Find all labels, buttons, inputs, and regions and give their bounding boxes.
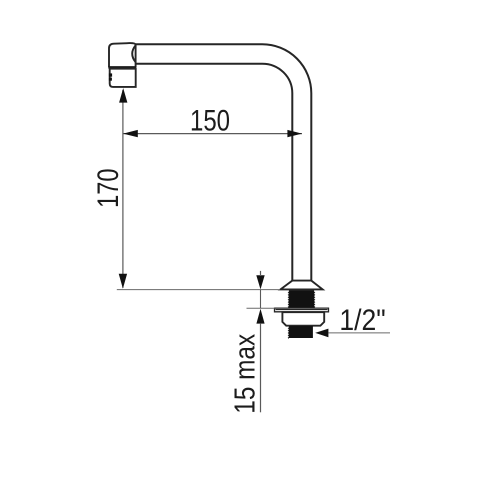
spout tube outer edge (horizontal run, corner bend, vertical drop)	[136, 44, 312, 280]
arrow left (150)	[123, 130, 138, 137]
base flare cone	[281, 281, 323, 290]
extension line at washer top	[247, 307, 275, 309]
svg-text:1/2": 1/2"	[339, 304, 385, 337]
arrow right (150)	[287, 130, 302, 137]
15 max gap line	[260, 290, 262, 309]
dimension line 150	[123, 133, 302, 135]
head/aerator divider line	[108, 66, 136, 69]
spout head body	[109, 43, 136, 67]
dimension label 170 (rotated)	[92, 169, 125, 208]
leader arrow for 1/2" (points at lower shank)	[315, 329, 328, 338]
backnut body	[282, 312, 324, 326]
extension line at mounting face	[117, 289, 280, 291]
arrow up (15 max, at washer top)	[256, 309, 264, 324]
spout head neck curve (tube junction)	[132, 45, 135, 62]
svg-text:150: 150	[190, 103, 230, 137]
15 max dimension line tail	[260, 323, 262, 412]
arrow up (170 top, at aerator outlet)	[119, 88, 127, 103]
upper threaded shank (black)	[288, 290, 316, 308]
washer plate	[275, 308, 329, 312]
dimension 15 max: arrow down at mounting face	[256, 271, 264, 290]
aerator body	[110, 69, 136, 87]
dimension 150: left extension / 170 dimension line	[122, 90, 124, 288]
dimension label 150	[190, 103, 230, 137]
svg-text:170: 170	[92, 169, 125, 208]
spout tube inner edge	[136, 64, 293, 281]
svg-text:15 max: 15 max	[229, 333, 261, 413]
dimension label 15 max (rotated)	[229, 333, 261, 413]
aerator clip notch lower	[109, 78, 112, 81]
aerator clip notch upper	[109, 73, 112, 76]
leader line for 1/2"	[329, 332, 391, 334]
label 1/2"	[339, 304, 385, 337]
lower threaded shank (black)	[288, 326, 313, 339]
arrow down (170 bottom, at mounting face)	[119, 274, 127, 289]
